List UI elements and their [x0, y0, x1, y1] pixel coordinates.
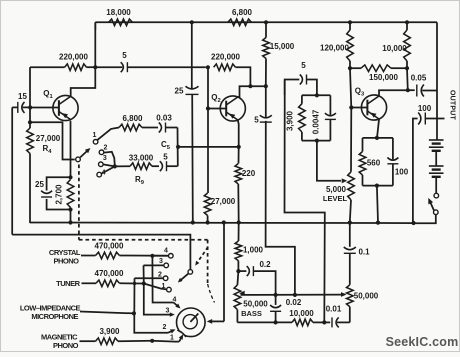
capacitor 0.02: [270, 295, 302, 323]
svg-text:25: 25: [175, 87, 184, 96]
wire Q1 emitter: [70, 121, 72, 178]
svg-text:470,000: 470,000: [95, 269, 124, 278]
wire top supply rail: [95, 22, 437, 30]
node 0.2 junction: [274, 293, 278, 297]
node emitter RC top: [375, 136, 379, 140]
capacitor 0.01: [324, 305, 350, 328]
wire microphone line: [80, 312, 134, 314]
svg-text:0.2: 0.2: [259, 260, 271, 269]
svg-text:0.03: 0.03: [156, 114, 172, 123]
svg-text:27,000: 27,000: [211, 197, 236, 206]
wire tuner to rotary 3: [144, 284, 175, 317]
wire tone wiper bus: [241, 294, 345, 296]
capacitor 0.05 (output coupling): [408, 74, 437, 97]
svg-text:1,000: 1,000: [243, 246, 264, 255]
svg-text:100: 100: [418, 104, 432, 113]
node junction top rail / 25uF line: [190, 20, 194, 24]
wire crystal to rotary 4: [152, 256, 180, 309]
svg-text:2: 2: [163, 324, 167, 331]
wire treble feedback: [285, 110, 325, 322]
svg-text:TUNER: TUNER: [56, 279, 80, 288]
switch contact 4 (S1a): [97, 169, 106, 177]
capacitor 0.03: [156, 114, 177, 133]
rotary switch body: [177, 308, 206, 338]
svg-text:50,000: 50,000: [354, 292, 379, 301]
wire bass wiper arrow: [239, 291, 245, 296]
node emitter network bottom: [68, 207, 72, 222]
node gnd 560/100: [376, 221, 380, 225]
svg-text:0.01: 0.01: [326, 305, 342, 314]
svg-text:3,900: 3,900: [286, 110, 295, 131]
node 0.02 bottom: [274, 320, 278, 324]
node gnd R4: [29, 222, 31, 224]
node 220,000/Q2 base junction: [206, 65, 210, 69]
svg-text:1: 1: [92, 132, 96, 139]
node 120,000/150,000 junction: [348, 66, 352, 70]
capacitor 0.1: [344, 223, 370, 285]
node emitter network top: [68, 175, 72, 179]
resistor 220,000 (Q2 base): [211, 53, 250, 87]
resistor R4 27,000: [27, 128, 61, 222]
svg-text:BASS: BASS: [241, 309, 262, 318]
svg-text:560: 560: [367, 159, 381, 168]
wire Q2 collector: [238, 86, 266, 97]
svg-text:2: 2: [158, 272, 162, 279]
resistor 120,000: [320, 22, 353, 68]
wire Q1 collector: [71, 67, 96, 96]
node magnetic junction: [150, 339, 154, 343]
wire rotary common to ground: [207, 223, 224, 324]
wire bias vertical (from 220,000 node): [29, 67, 31, 128]
capacitor 5 (coupling Q2 out): [254, 86, 272, 124]
wire feedback to Q2 emitter: [178, 146, 239, 148]
node gnd 220/1,000: [237, 220, 241, 224]
label TUNER: [56, 279, 80, 288]
wire contacts 2,3,4 tie: [102, 152, 115, 174]
resistor 18,000 (in top rail): [106, 8, 132, 26]
svg-text:PHONO: PHONO: [53, 256, 79, 265]
svg-text:0.1: 0.1: [358, 248, 370, 257]
wire Q3 collector: [379, 90, 408, 96]
svg-text:5: 5: [122, 51, 127, 60]
svg-text:PHONO: PHONO: [53, 341, 79, 350]
wire battery to ground rail: [414, 215, 436, 224]
transistor Q1: [43, 89, 78, 121]
node contacts tie junction: [113, 164, 130, 168]
potentiometer 50,000 BASS: [234, 271, 268, 322]
node output 100uF junction: [411, 221, 415, 225]
switch wiper S1a: [76, 148, 91, 162]
node 5uF signal junction: [293, 293, 297, 297]
svg-text:4: 4: [164, 247, 168, 254]
switch power contact a: [434, 193, 439, 198]
node junction top rail / 10,000: [405, 20, 409, 24]
resistor 1,000: [235, 223, 263, 272]
resistor 220 (Q2 emitter): [235, 147, 256, 223]
svg-text:3: 3: [103, 155, 107, 162]
capacitor 0.0047: [312, 95, 336, 140]
svg-text:5,000: 5,000: [326, 185, 347, 194]
capacitor 100 (output): [413, 104, 437, 223]
svg-text:2,700: 2,700: [55, 184, 64, 205]
node 1,000/0.2 junction: [236, 269, 240, 273]
label SeekIC.com watermark: [386, 335, 459, 349]
node junction top rail / 15,000: [264, 20, 268, 24]
wire mic to rotary 2: [134, 313, 175, 333]
node crystal junction: [150, 254, 154, 258]
potentiometer 50,000 (treble): [347, 285, 379, 323]
node tuner junction: [142, 281, 146, 285]
label CRYSTAL PHONO: [49, 248, 81, 265]
wire Q2 emitter: [237, 120, 240, 147]
node Q1 collector supply junction: [93, 22, 97, 69]
resistor 10,000 (tone): [289, 309, 324, 326]
wire emitter RC top: [363, 137, 393, 139]
node 10,000/150,000 junction: [405, 66, 409, 90]
capacitor 100 (emitter bypass): [387, 138, 408, 186]
resistor 3,900 (magnetic): [80, 327, 153, 345]
node mic crossing: [133, 282, 137, 286]
svg-text:220,000: 220,000: [59, 53, 88, 62]
wire mic vertical: [133, 278, 135, 313]
wire 220,000 left branch: [30, 66, 95, 68]
wire ground rail: [30, 222, 414, 225]
resistor 10,000: [382, 22, 410, 68]
switch contact 2 (S1b): [135, 272, 168, 281]
wire treble wiper arrow: [341, 292, 347, 297]
node gnd level pot: [348, 221, 352, 225]
node Q3 base junction: [349, 105, 367, 109]
wire tone feedback vertical: [284, 80, 286, 111]
node Q2 emitter junction: [237, 145, 241, 149]
svg-text:6,800: 6,800: [232, 8, 253, 17]
switch contact 3 (S1a): [99, 155, 107, 167]
node Q3 collector junction: [406, 88, 410, 92]
switch contact 1 (S1b): [144, 283, 171, 292]
svg-text:1: 1: [162, 283, 166, 290]
svg-text:15,000: 15,000: [270, 42, 295, 51]
battery B1: [429, 140, 444, 193]
svg-text:OUTPUT: OUTPUT: [449, 90, 456, 121]
svg-text:1: 1: [170, 335, 174, 342]
switch contact 2 (S1a): [99, 145, 107, 155]
node gnd 27,000: [206, 220, 210, 224]
switch contact 4 (S1b): [152, 247, 173, 258]
resistor 15,000: [263, 22, 295, 86]
resistor 6,800 (in top rail): [228, 8, 253, 26]
resistor R9 33,000: [129, 153, 159, 186]
capacitor 0.2: [238, 260, 275, 295]
switch contact 1 (S1a): [92, 132, 97, 144]
svg-text:220: 220: [242, 169, 256, 178]
resistor 560: [359, 138, 381, 186]
svg-text:150,000: 150,000: [369, 73, 398, 82]
svg-text:3: 3: [159, 258, 163, 265]
svg-text:2: 2: [104, 145, 108, 152]
svg-text:100: 100: [395, 168, 409, 177]
wire emitter RC bottom: [363, 185, 393, 187]
svg-text:25: 25: [35, 180, 44, 189]
label OUTPUT: [449, 90, 456, 121]
svg-text:4: 4: [173, 297, 177, 304]
wire contact 1 to 6,800: [97, 128, 119, 140]
capacitor C5 5: [160, 140, 178, 171]
resistor 3,900 (tone): [286, 95, 306, 140]
linkage dashed S1: [79, 165, 208, 285]
switch power contact b: [434, 210, 439, 215]
svg-text:3: 3: [166, 307, 170, 314]
linkage dashed to rotary: [208, 284, 215, 303]
wire feedback branch tie: [177, 128, 179, 167]
switch power lever: [428, 198, 434, 211]
svg-text:0.05: 0.05: [411, 74, 427, 83]
switch wiper S1b: [178, 270, 193, 283]
node mic junction: [132, 311, 136, 315]
svg-text:10,000: 10,000: [289, 309, 314, 318]
node tone box bottom: [315, 139, 319, 143]
wire Q2 out to tone bus: [266, 121, 295, 295]
node junction top rail / 120,000: [348, 20, 352, 24]
wire output rail right: [436, 22, 438, 139]
label MAGNETIC PHONO: [41, 333, 79, 350]
node gnd 25uF: [191, 220, 195, 224]
wire bias to switch wiper: [30, 122, 75, 159]
wire output tick: [437, 118, 445, 120]
wire magnetic to rotary 1: [152, 334, 183, 341]
capacitor 25 (emitter bypass): [35, 177, 70, 209]
node gnd rotary common: [222, 220, 226, 224]
linkage dashed arrow to S1b wiper: [195, 247, 208, 266]
wire input line left vertical: [11, 107, 13, 234]
svg-text:5: 5: [254, 116, 259, 125]
svg-text:10,000: 10,000: [382, 44, 407, 53]
transistor Q3: [355, 87, 387, 121]
svg-text:50,000: 50,000: [243, 300, 268, 309]
wire tone box top: [302, 94, 331, 96]
svg-text:27,000: 27,000: [36, 134, 61, 143]
wire bottom chain left: [237, 321, 292, 323]
svg-text:18,000: 18,000: [106, 8, 131, 17]
capacitor 25 (feedback electrolytic): [175, 22, 199, 222]
capacitor 5 (coupling Q1-Q2): [95, 51, 206, 72]
node 220,000 feedback junction: [248, 84, 252, 88]
svg-text:0.0047: 0.0047: [312, 109, 321, 134]
node 10,000/0.01 junction: [322, 320, 326, 324]
svg-text:15: 15: [18, 92, 27, 101]
svg-text:5: 5: [163, 153, 168, 162]
wire tone box bottom: [302, 140, 331, 142]
switch contact 3 (S1b): [144, 258, 169, 268]
resistor 470,000 (crystal): [81, 241, 169, 258]
resistor 150,000: [350, 65, 407, 82]
node bias/R4 junction: [28, 120, 32, 124]
wire input signal line: [12, 235, 190, 270]
svg-text:6,800: 6,800: [122, 114, 143, 123]
resistor 470,000 (tuner): [82, 269, 144, 287]
potentiometer 5,000 LEVEL: [323, 108, 354, 223]
capacitor 5 (tone feedback): [285, 61, 317, 95]
label LOW-IMPEDANCE MICROPHONE: [20, 304, 81, 322]
svg-text:3,900: 3,900: [99, 327, 120, 336]
node tone box top: [315, 93, 319, 97]
wire tuner to contact3: [143, 265, 145, 283]
node emitter RC bottom: [375, 184, 379, 223]
node Q2 collector junction: [264, 84, 268, 88]
resistor 2,700 (emitter): [55, 180, 74, 208]
node gnd emitter network: [68, 220, 72, 224]
wire Q2 base vertical: [207, 67, 209, 108]
svg-text:SeekIC.com: SeekIC.com: [386, 335, 459, 349]
resistor 6,800 (feedback pos.1): [119, 114, 158, 131]
capacitor 15 (input coupling): [12, 92, 30, 113]
svg-text:120,000: 120,000: [320, 44, 349, 53]
resistor 27,000 (Q2 base bias): [204, 109, 235, 223]
wire tone box to level wiper: [317, 141, 341, 181]
svg-text:5: 5: [301, 61, 306, 70]
wire Q3 emitter: [377, 120, 379, 138]
node Q1 base bias junction: [28, 105, 32, 109]
svg-text:470,000: 470,000: [95, 241, 124, 250]
svg-text:MICROPHONE: MICROPHONE: [31, 312, 78, 321]
svg-text:220,000: 220,000: [211, 53, 240, 62]
node feedback out junction: [176, 145, 180, 149]
wire Q1 base lead: [30, 107, 59, 109]
svg-text:0.02: 0.02: [286, 298, 302, 307]
node Q2 base junction: [206, 106, 226, 110]
svg-text:LEVEL: LEVEL: [323, 194, 348, 203]
transistor Q2: [211, 93, 245, 121]
svg-text:33,000: 33,000: [129, 153, 154, 162]
wire Q3 base vertical: [350, 68, 351, 107]
resistor 220,000 (Q1 collector load): [59, 53, 88, 71]
